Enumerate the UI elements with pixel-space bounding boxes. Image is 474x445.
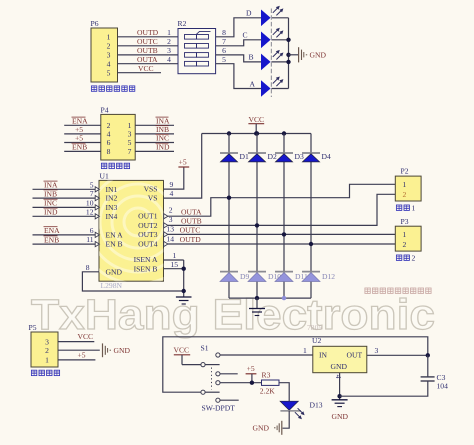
- svg-text:+5: +5: [75, 134, 83, 143]
- svg-text:D1: D1: [240, 152, 249, 161]
- diode D1: [220, 152, 249, 162]
- svg-text:OUTD: OUTD: [137, 28, 159, 37]
- svg-text:IN3: IN3: [106, 203, 118, 212]
- svg-text:4: 4: [334, 375, 343, 379]
- wire VS pin4 to VCC rail: [164, 134, 202, 199]
- wire diode column 1: [228, 134, 230, 299]
- svg-text:U1: U1: [100, 172, 109, 181]
- svg-text:1: 1: [412, 204, 416, 213]
- diode D9: [220, 272, 249, 282]
- wire S1 throw stub: [220, 373, 238, 375]
- svg-text:D: D: [246, 9, 252, 18]
- svg-text:2: 2: [167, 37, 171, 46]
- LED D13: [280, 401, 323, 420]
- wire ENA to P4: [64, 124, 101, 126]
- wire LED cathode to bus: [271, 17, 288, 19]
- wire bottom rail: [229, 297, 311, 299]
- wire R3 to D13: [279, 383, 289, 401]
- svg-text:8: 8: [222, 28, 226, 37]
- wire +5 from P5 pin1: [58, 359, 95, 361]
- svg-text:9: 9: [170, 180, 174, 189]
- svg-text:12: 12: [86, 207, 94, 216]
- svg-text:1: 1: [45, 356, 49, 365]
- wire LED cathode to bus: [271, 39, 288, 41]
- ground GND of D13: [253, 421, 282, 435]
- ground GND of P5: [103, 343, 131, 357]
- wire GND pin8 of U1: [82, 272, 183, 291]
- svg-text:U2: U2: [312, 336, 321, 345]
- watermark text TxHang Electronic: [31, 291, 435, 339]
- wire +5 to P4: [64, 133, 101, 135]
- svg-text:C3: C3: [437, 373, 446, 382]
- power +5 at R3: [246, 364, 257, 385]
- wire S1 throw stub 2: [220, 399, 239, 401]
- wire S1 to U2 IN: [220, 354, 313, 356]
- svg-text:7: 7: [128, 147, 132, 156]
- wire R2 pin6 to LED B: [216, 55, 262, 62]
- diode D4: [302, 152, 331, 162]
- svg-text:GND: GND: [114, 346, 131, 355]
- svg-text:8: 8: [107, 147, 111, 156]
- wire IND from P4: [135, 150, 174, 152]
- svg-text:3: 3: [375, 346, 379, 355]
- diode D3: [275, 152, 304, 162]
- wire OUTB P6 to R2: [118, 54, 179, 56]
- svg-text:7805: 7805: [307, 323, 322, 332]
- wire +5 to P4: [64, 142, 101, 144]
- svg-text:OUT: OUT: [347, 350, 363, 359]
- svg-text:INC: INC: [44, 199, 57, 208]
- LED C: [243, 28, 284, 48]
- wire INA to U1: [33, 188, 96, 190]
- wire IND to U1: [33, 215, 96, 217]
- wire diode column 4: [310, 134, 312, 299]
- LED A: [250, 77, 284, 97]
- pin 11 U1: [95, 242, 99, 247]
- pin 2 U1 output: [164, 214, 168, 219]
- faded note 电机释放方向指示灯: [365, 288, 431, 293]
- svg-text:D12: D12: [322, 272, 335, 281]
- svg-text:VCC: VCC: [138, 64, 154, 73]
- wire OUTA P6 to R2: [118, 63, 179, 65]
- svg-text:5: 5: [90, 180, 94, 189]
- wire OUTC net U1 pin13 to P3 pin1: [168, 233, 395, 235]
- svg-text:8: 8: [86, 263, 90, 272]
- svg-text:R2: R2: [178, 19, 187, 28]
- svg-text:5: 5: [128, 138, 132, 147]
- svg-text:OUTC: OUTC: [137, 37, 158, 46]
- svg-text:P5: P5: [29, 323, 37, 332]
- svg-text:INB: INB: [44, 189, 57, 198]
- svg-text:5: 5: [222, 55, 226, 64]
- svg-text:OUT2: OUT2: [138, 221, 158, 230]
- wire OUTD net U1 pin14 to P3 pin2: [168, 243, 395, 245]
- ground of diode rail: [249, 298, 265, 315]
- svg-text:OUTD: OUTD: [180, 235, 202, 244]
- svg-text:4: 4: [167, 55, 171, 64]
- wire VCC top rail: [202, 133, 311, 135]
- svg-text:7: 7: [90, 189, 94, 198]
- svg-text:IN4: IN4: [106, 212, 118, 221]
- svg-text:2: 2: [45, 346, 49, 355]
- diode D12: [302, 272, 335, 282]
- svg-text:10: 10: [86, 198, 94, 207]
- wire OUTC P6 to R2: [118, 45, 179, 47]
- wire R2 pin7 to LED C: [216, 40, 262, 46]
- svg-text:R3: R3: [262, 371, 271, 380]
- svg-text:OUTC: OUTC: [180, 226, 201, 235]
- svg-text:6: 6: [90, 226, 94, 235]
- wire INB from P4: [135, 133, 174, 135]
- svg-text:1: 1: [173, 251, 177, 260]
- svg-text:5: 5: [107, 69, 111, 78]
- label 电机控制: [101, 163, 129, 168]
- wire S1 to R3: [220, 382, 262, 384]
- svg-text:INC: INC: [156, 134, 169, 143]
- svg-text:15: 15: [171, 260, 179, 269]
- pin 5 U1: [95, 187, 99, 192]
- wire ISEN B pin15: [164, 268, 184, 270]
- svg-text:+5: +5: [179, 158, 187, 167]
- svg-text:IND: IND: [156, 143, 170, 152]
- svg-text:ENB: ENB: [44, 235, 59, 244]
- diode D11: [275, 272, 308, 282]
- wire INA from P4: [135, 124, 174, 126]
- svg-text:OUTB: OUTB: [137, 46, 158, 55]
- svg-text:GND: GND: [253, 424, 270, 433]
- svg-text:OUTA: OUTA: [181, 207, 202, 216]
- svg-text:D4: D4: [322, 152, 331, 161]
- svg-text:4: 4: [107, 60, 111, 69]
- svg-text:104: 104: [437, 382, 449, 391]
- svg-text:ISEN B: ISEN B: [134, 264, 158, 273]
- svg-text:VS: VS: [148, 194, 158, 203]
- svg-text:OUT3: OUT3: [138, 230, 158, 239]
- wire ISEN A pin1: [164, 259, 184, 261]
- svg-text:IN1: IN1: [106, 185, 118, 194]
- svg-text:14: 14: [166, 234, 174, 243]
- connector P2: [395, 167, 421, 201]
- wire LED cathode bus: [288, 18, 290, 89]
- svg-text:A: A: [250, 79, 256, 88]
- svg-text:VSS: VSS: [144, 185, 158, 194]
- svg-text:C: C: [243, 31, 248, 40]
- svg-text:VCC: VCC: [78, 332, 94, 341]
- svg-text:GND: GND: [331, 362, 348, 371]
- svg-text:1: 1: [167, 28, 171, 37]
- op-amp U1 L298N driver: [76, 160, 200, 284]
- svg-text:ENA: ENA: [44, 226, 60, 235]
- svg-text:6: 6: [222, 46, 226, 55]
- pin 13 U1 output: [164, 232, 168, 237]
- LED B: [249, 50, 284, 70]
- svg-text:OUT4: OUT4: [138, 240, 158, 249]
- wire OUTD P6 to R2: [118, 36, 179, 38]
- svg-text:2: 2: [403, 240, 407, 249]
- svg-text:GND: GND: [106, 268, 123, 277]
- resistor network R2: [178, 19, 216, 74]
- pin 12 U1: [95, 214, 99, 219]
- wire D13 to ground: [283, 411, 290, 428]
- svg-text:6: 6: [107, 138, 111, 147]
- capacitor C3 104: [340, 355, 448, 396]
- wire R2 pin5 to LED A: [216, 64, 262, 89]
- wire OUTB net U1 pin3 to P2 pin2: [168, 194, 395, 225]
- power VCC: [248, 115, 264, 134]
- power VCC at switch: [174, 345, 202, 364]
- svg-text:P6: P6: [91, 19, 99, 28]
- svg-text:3: 3: [107, 51, 111, 60]
- svg-text:2: 2: [169, 206, 173, 215]
- svg-text:B: B: [249, 53, 254, 62]
- power +5 at U1 VSS: [164, 158, 190, 190]
- svg-text:11: 11: [86, 235, 94, 244]
- svg-text:3: 3: [167, 46, 171, 55]
- svg-text:+5: +5: [247, 364, 255, 373]
- svg-text:P2: P2: [401, 167, 409, 176]
- wire diode column 2: [256, 134, 258, 299]
- label 电机2: [396, 255, 409, 260]
- svg-text:GND: GND: [332, 412, 349, 421]
- svg-text:P4: P4: [101, 106, 109, 115]
- svg-text:OUT1: OUT1: [138, 212, 158, 221]
- svg-text:4: 4: [170, 189, 174, 198]
- svg-text:1: 1: [303, 346, 307, 355]
- pin 7 U1: [95, 196, 99, 201]
- connector P6: [91, 19, 118, 82]
- ground of U1: [176, 297, 192, 304]
- wire ENA to U1: [33, 234, 96, 236]
- wire diode column 3: [283, 134, 285, 299]
- svg-text:OUTB: OUTB: [181, 217, 202, 226]
- wire LED cathode to bus: [271, 61, 288, 63]
- wire VCC from P6 pin 5: [118, 72, 162, 74]
- diode D2: [248, 152, 277, 162]
- svg-text:EN A: EN A: [106, 230, 124, 239]
- svg-text:INA: INA: [44, 181, 58, 190]
- resistor R3 2.2K: [260, 371, 279, 396]
- svg-text:2: 2: [107, 42, 111, 51]
- wire VCC from P5 pin3: [58, 341, 94, 343]
- wire switch pole2 loop to U2 output: [163, 337, 428, 392]
- regulator U2 7805: [307, 323, 367, 373]
- svg-text:+5: +5: [78, 350, 86, 359]
- wire ENB to P4: [64, 150, 101, 152]
- svg-text:IND: IND: [44, 208, 58, 217]
- LED D: [246, 6, 283, 26]
- diode D10: [248, 272, 281, 282]
- svg-text:2: 2: [412, 254, 416, 263]
- svg-text:1: 1: [403, 230, 407, 239]
- connector P4: [101, 106, 136, 161]
- svg-text:IN: IN: [319, 350, 328, 359]
- wire OUTA net U1 pin2 to P2 pin1: [168, 184, 395, 216]
- svg-text:1: 1: [403, 180, 407, 189]
- svg-text:S1: S1: [201, 344, 209, 353]
- svg-text:D13: D13: [310, 401, 323, 410]
- ground GND of LED bus: [289, 47, 327, 62]
- label 电机控制信号: [91, 86, 134, 91]
- wire ENB to U1: [33, 243, 96, 245]
- wire INC to U1: [33, 206, 96, 208]
- svg-text:2.2K: 2.2K: [260, 386, 275, 395]
- svg-text:ENB: ENB: [72, 143, 87, 152]
- svg-text:2: 2: [403, 190, 407, 199]
- switch S1 SW-DPDT: [201, 344, 220, 403]
- wire INB to U1: [33, 197, 96, 199]
- svg-text:D9: D9: [240, 272, 249, 281]
- svg-text:OUTA: OUTA: [137, 55, 158, 64]
- pin 10 U1: [95, 205, 99, 210]
- svg-text:EN B: EN B: [106, 240, 123, 249]
- pin 14 U1 output: [164, 241, 168, 246]
- svg-text:SW-DPDT: SW-DPDT: [202, 403, 236, 412]
- connector P5: [29, 323, 59, 367]
- svg-text:ISEN A: ISEN A: [134, 255, 158, 264]
- ground of U2: [332, 400, 349, 421]
- pin 3 U1 output: [164, 223, 168, 228]
- svg-text:VCC: VCC: [249, 115, 265, 124]
- wire GND from P5 pin2: [58, 349, 100, 351]
- pin 6 U1: [95, 232, 99, 237]
- svg-text:1: 1: [107, 33, 111, 42]
- svg-text:L298N: L298N: [101, 281, 123, 290]
- label 电机1: [396, 205, 409, 210]
- svg-text:VCC: VCC: [174, 345, 190, 354]
- svg-text:7: 7: [222, 37, 226, 46]
- svg-text:P3: P3: [401, 217, 409, 226]
- svg-text:GND: GND: [310, 51, 327, 60]
- node VCC stub dot: [254, 131, 258, 135]
- label 系统电源: [31, 370, 59, 375]
- svg-text:IN2: IN2: [106, 194, 118, 203]
- wire LED cathode dashed line: [270, 9, 272, 98]
- wire INC from P4: [135, 142, 174, 144]
- connector P3: [395, 217, 421, 251]
- wire LED cathode to bus: [271, 88, 288, 90]
- wire R2 pin8 to LED D: [216, 18, 262, 37]
